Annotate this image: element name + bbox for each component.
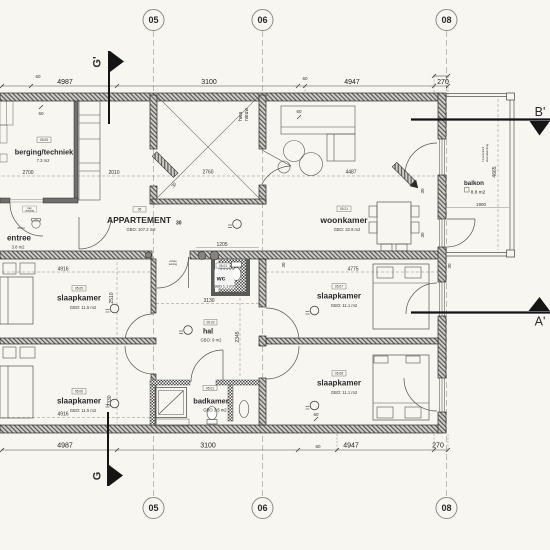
section marker B' right (411, 118, 550, 120)
wardrobe slaapkamer upper-left (3, 263, 16, 274)
balkon column bottom (507, 250, 515, 257)
svg-text:05.06: 05.06 (75, 390, 83, 394)
svg-text:05.07: 05.07 (335, 285, 343, 289)
grid line 08 (446, 31, 448, 497)
interior dim vertical left rooms (116, 262, 118, 423)
svg-text:05.21: 05.21 (340, 207, 348, 211)
washbasin entree (32, 220, 40, 228)
window slaapkamer lower-right (440, 378, 445, 412)
interior dim dashed line lower band left (2, 271, 150, 273)
svg-text:woonkamer: woonkamer (319, 215, 368, 225)
door hal to slaapkamer lower-right (266, 346, 299, 379)
svg-text:3100: 3100 (200, 443, 216, 450)
wall hal right lower (259, 378, 266, 425)
svg-text:270: 270 (432, 443, 444, 450)
berging door threshold (10, 199, 43, 201)
grid bubble 06 top (252, 10, 273, 31)
room woonkamer (337, 206, 351, 212)
bed slaapkamer lower-left (0, 366, 33, 418)
svg-text:60: 60 (313, 412, 319, 417)
svg-text:05.05: 05.05 (75, 287, 83, 291)
room badkamer (203, 386, 217, 391)
berging cabinet (0, 101, 13, 125)
grid line 06 (262, 31, 264, 497)
ceiling light hal (184, 326, 193, 335)
balkon right edge (509, 97, 511, 252)
stack pipe 1 (198, 252, 206, 260)
wc wall right (246, 259, 250, 296)
svg-text:GBO 3.5 m2: GBO 3.5 m2 (203, 408, 227, 413)
svg-text:60: 60 (38, 111, 44, 116)
lounge chair 1 (284, 141, 305, 162)
svg-text:badkamer: badkamer (193, 397, 229, 406)
stack pipe 3 (146, 252, 152, 258)
room wc (215, 270, 235, 289)
svg-text:G: G (92, 472, 104, 481)
ceiling light apartment hall (233, 220, 242, 229)
wall between right slaapkamers (266, 338, 438, 344)
svg-text:05: 05 (148, 503, 158, 513)
bottom dim ticks (0, 448, 450, 452)
grid bubble 05 top (143, 10, 164, 31)
svg-text:05.01: 05.01 (206, 387, 214, 391)
svg-text:GBO: 11.1 m2: GBO: 11.1 m2 (331, 390, 358, 395)
interior dim line 1205 (196, 247, 259, 249)
svg-text:2760: 2760 (202, 170, 213, 176)
svg-text:slaapkamer: slaapkamer (57, 397, 101, 406)
dining chairs (369, 206, 377, 217)
side table (278, 161, 290, 173)
svg-text:slaapkamer: slaapkamer (317, 292, 361, 301)
badkamer washbasin (239, 401, 249, 418)
ceiling light slaapkamer lower-right (310, 401, 319, 410)
wall hal right upper (259, 259, 266, 307)
svg-text:4916: 4916 (57, 267, 68, 273)
grid line 05 (153, 31, 155, 497)
bottom dimension line (1, 449, 448, 451)
door balkon (447, 218, 475, 220)
door entree to hall (78, 217, 80, 249)
svg-text:05.04: 05.04 (18, 226, 25, 230)
svg-text:B': B' (535, 105, 546, 119)
balkon bottom edge (446, 252, 510, 254)
balkon dim line 1900 (447, 207, 509, 209)
top dimension line 270 segment (433, 75, 449, 77)
wall stairwell left upper (150, 95, 157, 149)
wall right segment 1 (438, 93, 446, 139)
ceiling light slaapkamer upper-right (310, 306, 319, 315)
svg-text:4947: 4947 (344, 79, 360, 86)
svg-text:30: 30 (447, 263, 452, 269)
svg-text:entree: entree (7, 234, 32, 243)
wall right segment 3 (438, 247, 446, 282)
svg-text:GBO: 107.2 m2: GBO: 107.2 m2 (126, 227, 156, 232)
svg-text:60: 60 (296, 109, 302, 114)
wall stairwell left lower (150, 186, 157, 204)
svg-text:270: 270 (437, 79, 449, 86)
room slaapkamer lower-right (332, 371, 346, 377)
wall stairwell right upper (259, 95, 266, 149)
wc wall bottom (211, 292, 250, 296)
svg-text:woning: woning (169, 262, 178, 266)
wall hal left upper (151, 259, 156, 313)
svg-text:05.08: 05.08 (335, 372, 343, 376)
top witness lines (447, 76, 449, 97)
svg-text:4775: 4775 (347, 267, 358, 273)
wall berging right (74, 101, 78, 202)
svg-text:GBO: 11.5 m2: GBO: 11.5 m2 (70, 305, 97, 310)
svg-text:60: 60 (35, 74, 41, 79)
grid bubble 05 bottom (143, 498, 164, 519)
ceiling light slaapkamer upper-left (110, 304, 119, 313)
entree door label box (23, 206, 37, 212)
bottom witness lines (336, 434, 338, 452)
svg-text:2010: 2010 (108, 170, 119, 176)
wall right segment 2 (438, 175, 446, 219)
top dimension line (1, 85, 448, 87)
svg-text:4665: 4665 (492, 166, 498, 177)
room berging/techniek (37, 137, 51, 143)
interior dim dashed line hal (156, 303, 259, 305)
wall between left slaapkamers (0, 338, 156, 344)
wall right segment 5 (438, 412, 446, 433)
balkon dim vertical 4665 (497, 99, 499, 250)
svg-text:4987: 4987 (57, 443, 73, 450)
berging fixture 1 (0, 125, 7, 143)
wall bottom exterior (0, 425, 441, 433)
svg-text:30: 30 (420, 232, 425, 238)
svg-text:1900: 1900 (476, 202, 487, 207)
svg-text:30: 30 (281, 262, 286, 268)
svg-text:GBO: 32.8 m2: GBO: 32.8 m2 (334, 227, 361, 232)
wardrobe slaapkamer lower-left (3, 347, 16, 358)
svg-text:GBO 1.1 m2: GBO 1.1 m2 (213, 285, 234, 289)
svg-text:4916: 4916 (57, 412, 68, 418)
svg-text:30: 30 (420, 188, 425, 194)
bed slaapkamer lower-right (373, 355, 429, 420)
svg-text:60: 60 (302, 76, 308, 81)
balkon top edge (446, 93, 509, 95)
svg-text:wc: wc (216, 276, 226, 283)
top dim ticks (0, 74, 450, 88)
door slaapkamer upper-right facade (406, 283, 437, 314)
svg-text:60: 60 (315, 444, 321, 449)
closet column (79, 101, 100, 200)
section marker A' right (411, 311, 550, 313)
wall berging bottom left (0, 198, 10, 203)
svg-text:3.8 m2: 3.8 m2 (12, 245, 25, 250)
interior dim dashed line lower band right (266, 271, 438, 273)
svg-text:slaapkamer: slaapkamer (57, 294, 101, 303)
badkamer toilet (207, 407, 217, 420)
wall middle left (0, 251, 152, 259)
badkamer tiled wall left (150, 385, 155, 425)
svg-text:slaapkamer: slaapkamer (317, 379, 361, 388)
grid bubble 08 top (436, 10, 457, 31)
berging fixture 2 (0, 154, 7, 162)
door stairwell to woonkamer (262, 150, 291, 166)
svg-text:omhoog: omhoog (25, 210, 34, 213)
interior dim dashed line bottom left (2, 417, 150, 419)
grid bubble 06 bottom (252, 498, 273, 519)
svg-text:APPARTEMENT: APPARTEMENT (107, 215, 172, 225)
room slaapkamer lower-left (72, 389, 86, 395)
interior dim vertical hal (239, 298, 241, 378)
window woonkamer facade (440, 139, 445, 175)
svg-text:4987: 4987 (57, 79, 73, 86)
wc shaft tiles (219, 259, 246, 292)
svg-text:G': G' (92, 56, 104, 68)
badkamer tiled wall top right (216, 380, 259, 385)
wall stairwell bottom (152, 199, 266, 204)
door hal to slaapkamer upper-right (266, 308, 299, 341)
svg-text:06: 06 (257, 503, 267, 513)
svg-text:4947: 4947 (343, 443, 359, 450)
room hal (204, 320, 217, 326)
svg-text:1205: 1205 (216, 242, 227, 248)
interior dim dashed line upper band (2, 175, 438, 177)
wall middle right (190, 251, 441, 259)
door middle wall to hal (188, 257, 190, 288)
dining table (377, 202, 411, 244)
svg-text:GBO: 9 m2: GBO: 9 m2 (201, 338, 223, 343)
section marker G' top (108, 51, 110, 124)
shower (156, 388, 187, 418)
sofa woonkamer (281, 106, 355, 134)
svg-text:3100: 3100 (201, 79, 217, 86)
door slaapkamer lower-right facade (404, 378, 437, 411)
svg-text:05.02: 05.02 (207, 321, 215, 325)
badkamer tiled wall top left (150, 380, 190, 385)
svg-text:8.8 m2: 8.8 m2 (471, 190, 486, 196)
svg-text:05: 05 (138, 208, 142, 212)
bed slaapkamer upper-right (373, 264, 429, 329)
svg-text:2510: 2510 (109, 292, 115, 303)
entrance door leaf diagonal (152, 152, 178, 178)
section marker G bottom (107, 412, 109, 486)
door badkamer (222, 350, 224, 382)
badkamer tiled wall mid (228, 385, 233, 421)
badkamer bench (155, 419, 189, 426)
room slaapkamer upper-left (72, 286, 86, 292)
wall berging bottom right (43, 198, 78, 203)
svg-text:vloerafwerking: vloerafwerking (485, 144, 489, 162)
room appartement (133, 207, 146, 213)
door arc berging to entree (10, 203, 43, 236)
bed slaapkamer upper-left (0, 277, 33, 324)
room slaapkamer upper-right (332, 284, 346, 290)
svg-text:05: 05 (148, 15, 158, 25)
wall top exterior (0, 93, 438, 101)
grid bubble 08 bottom (436, 498, 457, 519)
wall hal left lower (151, 374, 156, 425)
ceiling light slaapkamer lower-left (110, 399, 119, 408)
svg-text:GBO: 11.1 m2: GBO: 11.1 m2 (331, 303, 358, 308)
door woonkamer facade (405, 143, 437, 175)
wall stairwell right lower (259, 185, 266, 204)
svg-text:08: 08 (441, 503, 451, 513)
svg-text:05.03: 05.03 (219, 264, 227, 268)
stairwell cross diagonal 2 (157, 96, 259, 198)
svg-text:08: 08 (441, 15, 451, 25)
door hal to slaapkamer lower-left (125, 346, 153, 374)
svg-text:2700: 2700 (22, 170, 33, 176)
window slaapkamer upper-right (440, 282, 445, 316)
wall hal right post (259, 336, 266, 346)
svg-text:3130: 3130 (203, 298, 214, 304)
stack pipe 2 (210, 251, 219, 260)
wc toilet (232, 262, 242, 267)
svg-text:2345: 2345 (235, 331, 241, 342)
svg-text:hal: hal (203, 329, 213, 336)
svg-text:30: 30 (176, 221, 182, 227)
stair arrow woonkamer (391, 161, 421, 191)
svg-text:berging/techniek: berging/techniek (15, 148, 74, 157)
svg-text:nieuw: nieuw (244, 108, 250, 121)
stairwell cross diagonal 1 (157, 96, 259, 198)
svg-text:7.3 m2: 7.3 m2 (37, 158, 50, 163)
wall right segment 4 (438, 316, 446, 378)
svg-text:4487: 4487 (345, 170, 356, 176)
svg-text:GBO: 11.5 m2: GBO: 11.5 m2 (70, 408, 97, 413)
lounge chair 2 (300, 153, 323, 176)
svg-text:A': A' (535, 315, 546, 329)
wc wall left (211, 259, 215, 296)
svg-text:06: 06 (257, 15, 267, 25)
balkon column top (507, 93, 515, 100)
svg-text:balkon: balkon (464, 180, 484, 187)
window balkon door (440, 219, 445, 247)
door hal to slaapkamer upper-left (125, 314, 153, 342)
svg-text:05.05: 05.05 (40, 138, 48, 142)
